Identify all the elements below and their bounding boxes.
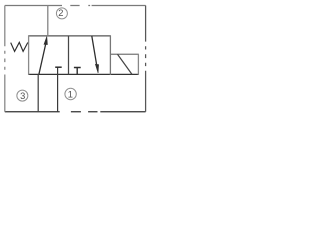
component enclosure border: top edge (long-dash pattern) <box>5 5 146 7</box>
valve envelope: top edge <box>28 35 111 37</box>
solenoid diagonal <box>118 54 133 74</box>
return spring (left, W zigzag) <box>11 42 28 51</box>
node 3 label: circle <box>17 90 28 101</box>
port 1 line (bottom middle) <box>57 67 59 112</box>
solenoid actuator box: top edge <box>110 53 138 55</box>
node 1 label: circle <box>65 88 76 99</box>
port 2 line (top stub) <box>47 6 49 36</box>
svg-text:2: 2 <box>58 8 63 18</box>
valve envelope: left edge <box>28 35 30 75</box>
valve position divider <box>68 36 70 75</box>
svg-text:3: 3 <box>20 91 25 101</box>
valve envelope: right edge <box>109 35 111 75</box>
solenoid actuator box: right edge <box>137 54 139 75</box>
right position: arrowhead (down) <box>95 64 98 73</box>
right position: blocked port T symbol <box>74 68 81 75</box>
left position: arrowhead (up) <box>44 37 47 45</box>
valve envelope: bottom edge (extends under solenoid box) <box>28 73 139 75</box>
left position: blocked port T symbol <box>55 66 62 68</box>
component enclosure border: bottom edge <box>5 111 146 113</box>
right position: flow arrow shaft <box>92 36 97 66</box>
node 2 label: circle <box>56 8 67 19</box>
svg-text:1: 1 <box>68 89 73 99</box>
port 3 line (bottom left) <box>37 74 39 111</box>
left position: flow arrow shaft <box>39 44 46 74</box>
component enclosure border: left edge <box>4 6 6 112</box>
component enclosure border: right edge <box>145 6 147 112</box>
